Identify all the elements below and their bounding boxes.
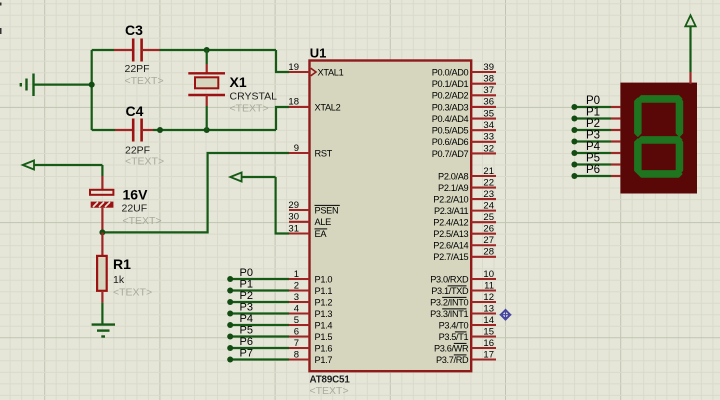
wire [276, 107, 289, 130]
pin 9 (RST) stub [289, 143, 310, 154]
svg-text:P5: P5 [240, 325, 253, 337]
svg-text:P0.1/AD1: P0.1/AD1 [432, 79, 469, 89]
svg-text:X1: X1 [230, 74, 247, 90]
pin name P1.5 [315, 332, 333, 342]
pin name EA [315, 229, 328, 239]
net label P5 [240, 325, 253, 337]
pin name P2.5/A13 [433, 229, 468, 239]
pin 15 (P3.5/T1) stub [471, 326, 496, 337]
pin 38 (P0.1/AD1) stub [471, 73, 496, 84]
ground [92, 325, 115, 337]
wire [230, 312, 289, 314]
svg-text:P2.7/A15: P2.7/A15 [433, 252, 468, 262]
pin name P2.0/A8 [438, 171, 468, 181]
svg-text:18: 18 [288, 97, 299, 108]
svg-text:P7: P7 [240, 348, 253, 360]
pin 6 (P1.5) stub [289, 326, 310, 337]
node [571, 173, 577, 179]
ground [21, 74, 34, 97]
pin 24 (P2.3/A11) stub [471, 200, 496, 211]
power terminal arrow [23, 161, 103, 170]
pin 30 (ALE) stub [288, 212, 309, 223]
svg-text:P3: P3 [586, 130, 600, 142]
svg-text:P2: P2 [586, 118, 600, 130]
svg-text:P1.5: P1.5 [315, 332, 333, 342]
node [571, 139, 577, 145]
svg-text:ALE: ALE [315, 217, 332, 227]
property text [125, 156, 164, 168]
pin 27 (P2.6/A14) stub [471, 235, 496, 246]
svg-text:6: 6 [294, 326, 299, 337]
value AT89C51 [310, 374, 351, 385]
svg-text:7: 7 [294, 338, 299, 349]
wire [574, 175, 620, 177]
svg-text:P0: P0 [240, 267, 253, 279]
value 22UF [122, 203, 148, 215]
svg-text:P0.3/AD3: P0.3/AD3 [432, 102, 469, 112]
pin 10 (P3.0/RXD) stub [471, 269, 496, 280]
svg-text:38: 38 [483, 73, 494, 84]
node [571, 104, 577, 110]
svg-text:<TEXT>: <TEXT> [125, 156, 164, 168]
pin 36 (P0.3/AD3) stub [471, 97, 496, 108]
svg-text:CRYSTAL: CRYSTAL [230, 91, 278, 103]
wire [101, 165, 103, 176]
pin name XTAL2 [315, 102, 341, 112]
pin 37 (P0.2/AD2) stub [471, 85, 496, 96]
crystal X1 [188, 64, 225, 106]
svg-text:P0: P0 [586, 95, 600, 107]
svg-text:24: 24 [483, 200, 494, 211]
svg-text:P1.3: P1.3 [315, 309, 333, 319]
net label P3 [240, 302, 253, 314]
pin name P3.7/RD [436, 355, 469, 365]
net label P1 [240, 279, 253, 291]
svg-text:33: 33 [483, 132, 494, 143]
pin name XTAL1 [311, 67, 344, 77]
svg-text:P5: P5 [586, 153, 600, 165]
wire [230, 289, 289, 291]
svg-text:R1: R1 [113, 256, 131, 272]
pin 17 (P3.7/RD) stub [471, 349, 496, 360]
pin 11 (P3.1/TXD) stub [471, 280, 496, 291]
wire [101, 303, 103, 325]
svg-text:P6: P6 [586, 164, 600, 176]
pin name P3.2/INT0 [430, 297, 468, 307]
net label P7 [240, 348, 253, 360]
node [157, 127, 163, 133]
net label P1 [586, 107, 600, 119]
wire [92, 129, 115, 131]
svg-text:8: 8 [294, 349, 299, 360]
power terminal arrow [230, 173, 275, 182]
svg-text:PSEN: PSEN [315, 205, 339, 215]
svg-text:17: 17 [483, 349, 494, 360]
pin name P0.0/AD0 [432, 67, 469, 77]
svg-text:P0.5/AD5: P0.5/AD5 [432, 126, 469, 136]
property text [113, 287, 152, 299]
wire [102, 153, 289, 232]
edge mark [0, 3, 2, 35]
node [227, 311, 233, 317]
svg-text:34: 34 [483, 120, 494, 131]
node [204, 47, 210, 53]
svg-text:XTAL2: XTAL2 [315, 102, 341, 112]
net label P0 [240, 267, 253, 279]
IC U1 AT89C51 body [310, 61, 472, 372]
pin 13 (P3.3/INT1) stub [471, 303, 496, 314]
pin 28 (P2.7/A15) stub [471, 247, 496, 258]
svg-text:P3.7/RD: P3.7/RD [436, 355, 469, 365]
svg-text:12: 12 [483, 292, 494, 303]
svg-text:27: 27 [483, 235, 494, 246]
svg-text:P1.7: P1.7 [315, 355, 333, 365]
svg-text:EA: EA [315, 229, 328, 239]
pin 12 (P3.2/INT0) stub [471, 292, 496, 303]
pin 3 (P1.2) stub [289, 292, 310, 303]
svg-text:<TEXT>: <TEXT> [123, 215, 162, 227]
svg-text:26: 26 [483, 224, 494, 235]
wire [689, 72, 691, 84]
svg-text:19: 19 [288, 62, 299, 73]
node [227, 345, 233, 351]
pin 16 (P3.6/WR) stub [471, 338, 496, 349]
svg-text:<TEXT>: <TEXT> [125, 75, 164, 87]
wire [230, 324, 289, 326]
svg-text:P1.2: P1.2 [315, 297, 333, 307]
wire [574, 129, 620, 131]
pin name P2.3/A11 [434, 206, 469, 216]
svg-text:P2.6/A14: P2.6/A14 [433, 241, 468, 251]
svg-text:5: 5 [294, 315, 299, 326]
svg-text:P3.0/RXD: P3.0/RXD [430, 274, 469, 284]
label C3 [125, 22, 143, 38]
svg-text:39: 39 [483, 62, 494, 73]
svg-text:22: 22 [483, 177, 494, 188]
wire [206, 50, 208, 64]
7-segment display [620, 83, 697, 194]
net label P2 [586, 118, 600, 130]
svg-text:P3.2/INT0: P3.2/INT0 [430, 297, 468, 307]
pin name P2.6/A14 [433, 241, 468, 251]
resistor R1 [97, 232, 107, 302]
pin name P1.1 [315, 286, 333, 296]
label U1 [310, 45, 327, 60]
svg-text:10: 10 [483, 269, 494, 280]
svg-text:P0.0/AD0: P0.0/AD0 [432, 67, 469, 77]
wire [230, 358, 289, 360]
pin 33 (P0.6/AD6) stub [471, 132, 496, 143]
svg-text:13: 13 [483, 303, 494, 314]
svg-text:P2: P2 [240, 290, 253, 302]
node [571, 127, 577, 133]
label C4 [126, 103, 144, 119]
pin name P0.6/AD6 [432, 137, 469, 147]
svg-text:P2.2/A10: P2.2/A10 [433, 194, 468, 204]
svg-text:P4: P4 [586, 141, 601, 153]
pin 14 (P3.4/T0) stub [471, 315, 496, 326]
pin name P2.4/A12 [433, 218, 468, 228]
pin 35 (P0.4/AD4) stub [471, 108, 496, 119]
label X1 [230, 74, 247, 90]
pin 31 (EA) stub [288, 223, 309, 234]
pin name P3.5/T1 [439, 332, 469, 342]
svg-text:RST: RST [315, 148, 333, 158]
svg-text:1: 1 [294, 269, 299, 280]
svg-text:P1.6: P1.6 [315, 343, 333, 353]
property text [230, 103, 269, 115]
wire [574, 117, 620, 119]
pin 4 (P1.3) stub [289, 303, 310, 314]
capacitor C5 (electrolytic) [90, 176, 113, 232]
pin 5 (P1.4) stub [289, 315, 310, 326]
value 22PF [125, 145, 150, 157]
pin 22 (P2.1/A9) stub [471, 177, 496, 188]
wire [230, 278, 289, 280]
pin name P0.3/AD3 [432, 102, 469, 112]
net label P6 [240, 336, 253, 348]
wire [230, 335, 289, 337]
origin marker [500, 309, 512, 321]
wire [91, 50, 93, 130]
value 22PF [125, 63, 150, 75]
svg-text:36: 36 [483, 97, 494, 108]
svg-text:16V: 16V [123, 187, 149, 203]
pin name P1.4 [315, 320, 333, 330]
wire [276, 177, 289, 234]
pin 18 (XTAL2) stub [288, 97, 309, 108]
svg-text:U1: U1 [310, 45, 327, 60]
svg-text:35: 35 [483, 108, 494, 119]
svg-text:21: 21 [483, 166, 494, 177]
svg-text:C3: C3 [125, 22, 143, 38]
wire [574, 163, 620, 165]
pin name P0.1/AD1 [432, 79, 469, 89]
net label P2 [240, 290, 253, 302]
pin 26 (P2.5/A13) stub [471, 224, 496, 235]
wire [230, 301, 289, 303]
net label P3 [586, 130, 600, 142]
svg-text:15: 15 [483, 326, 494, 337]
svg-text:P1.1: P1.1 [315, 286, 333, 296]
pin name P2.2/A10 [433, 194, 468, 204]
pin name P3.1/TXD [431, 286, 469, 296]
net label P0 [586, 95, 600, 107]
pin name P1.0 [315, 274, 333, 284]
svg-text:P4: P4 [240, 313, 253, 325]
pin name ALE [315, 217, 332, 227]
svg-text:P1.0: P1.0 [315, 274, 333, 284]
svg-text:C4: C4 [126, 103, 144, 119]
pin 23 (P2.2/A10) stub [471, 189, 496, 200]
pin name P3.4/T0 [439, 320, 469, 330]
wire [153, 129, 276, 131]
property text [125, 75, 164, 87]
pin 8 (P1.7) stub [289, 349, 310, 360]
svg-text:P2.5/A13: P2.5/A13 [433, 229, 468, 239]
pin name P1.6 [315, 343, 333, 353]
capacitor C3 [114, 39, 160, 62]
svg-text:<TEXT>: <TEXT> [113, 287, 152, 299]
node [571, 150, 577, 156]
capacitor C4 [115, 119, 153, 142]
node [227, 299, 233, 305]
svg-text:29: 29 [288, 200, 299, 211]
wire [230, 347, 289, 349]
wire [574, 140, 620, 142]
pin name P2.1/A9 [438, 183, 468, 193]
svg-text:2: 2 [294, 280, 299, 291]
node [227, 334, 233, 340]
svg-text:P3.3/INT1: P3.3/INT1 [430, 309, 468, 319]
pin 1 (P1.0) stub [289, 269, 310, 280]
pin 34 (P0.5/AD5) stub [471, 120, 496, 131]
value 16V [123, 187, 149, 203]
svg-text:22UF: 22UF [122, 203, 148, 215]
svg-text:37: 37 [483, 85, 494, 96]
node [227, 357, 233, 363]
wire [574, 106, 620, 108]
svg-text:P2.3/A11: P2.3/A11 [434, 206, 469, 216]
net label P4 [586, 141, 601, 153]
svg-text:P3.6/WR: P3.6/WR [434, 343, 469, 353]
svg-text:P2.4/A12: P2.4/A12 [433, 218, 468, 228]
svg-text:P6: P6 [240, 336, 253, 348]
svg-text:16: 16 [483, 338, 494, 349]
node [227, 276, 233, 282]
pin name P0.7/AD7 [432, 149, 469, 159]
wire [92, 49, 114, 51]
svg-text:P1.4: P1.4 [315, 320, 333, 330]
svg-text:P3: P3 [240, 302, 253, 314]
node [204, 127, 210, 133]
svg-text:22PF: 22PF [125, 63, 150, 75]
pin 19 (XTAL1) stub [288, 62, 309, 73]
pin 29 (PSEN) stub [288, 200, 309, 211]
net label P5 [586, 153, 600, 165]
pin 39 (P0.0/AD0) stub [471, 62, 496, 73]
pin name P1.3 [315, 309, 333, 319]
svg-text:32: 32 [483, 143, 494, 154]
pin name P3.3/INT1 [430, 309, 468, 319]
svg-text:23: 23 [483, 189, 494, 200]
svg-text:1k: 1k [113, 274, 125, 286]
svg-text:<TEXT>: <TEXT> [230, 103, 269, 115]
value 1k [113, 274, 125, 286]
node [571, 116, 577, 122]
pin name P0.2/AD2 [432, 91, 469, 101]
svg-text:P3.5/T1: P3.5/T1 [439, 332, 469, 342]
pin 7 (P1.6) stub [289, 338, 310, 349]
svg-text:11: 11 [484, 280, 494, 291]
svg-text:P1: P1 [586, 107, 600, 119]
svg-text:<TEXT>: <TEXT> [310, 385, 349, 397]
pin name RST [315, 148, 333, 158]
wire [206, 106, 208, 130]
pin 21 (P2.0/A8) stub [471, 166, 496, 177]
pin name P0.4/AD4 [432, 114, 469, 124]
svg-text:9: 9 [294, 143, 299, 154]
svg-text:P0.2/AD2: P0.2/AD2 [432, 91, 469, 101]
wire [574, 152, 620, 154]
wire [276, 50, 289, 72]
node [571, 162, 577, 168]
svg-text:25: 25 [483, 212, 494, 223]
property text [310, 385, 349, 397]
pin name P1.2 [315, 297, 333, 307]
wire [34, 83, 92, 85]
svg-text:AT89C51: AT89C51 [310, 374, 351, 385]
pin 32 (P0.7/AD7) stub [471, 143, 496, 154]
pin 25 (P2.4/A12) stub [471, 212, 496, 223]
pin name P1.7 [315, 355, 333, 365]
node [227, 288, 233, 294]
svg-text:3: 3 [294, 292, 299, 303]
svg-text:P0.7/AD7: P0.7/AD7 [432, 149, 469, 159]
svg-text:14: 14 [483, 315, 494, 326]
svg-text:P2.0/A8: P2.0/A8 [438, 171, 468, 181]
svg-text:P1: P1 [240, 279, 253, 291]
value CRYSTAL [230, 91, 278, 103]
svg-text:P2.1/A9: P2.1/A9 [438, 183, 468, 193]
node [89, 82, 95, 88]
node [99, 229, 105, 235]
svg-text:P3.1/TXD: P3.1/TXD [431, 286, 469, 296]
pin 2 (P1.1) stub [289, 280, 310, 291]
pin name P3.6/WR [434, 343, 469, 353]
node [227, 322, 233, 328]
svg-text:28: 28 [483, 247, 494, 258]
pin name P3.0/RXD [430, 274, 469, 284]
net label P6 [586, 164, 600, 176]
net label P4 [240, 313, 253, 325]
wire [160, 49, 277, 51]
pin name P2.7/A15 [433, 252, 468, 262]
svg-text:XTAL1: XTAL1 [318, 67, 344, 77]
label R1 [113, 256, 131, 272]
svg-text:P0.6/AD6: P0.6/AD6 [432, 137, 469, 147]
power terminal arrow [685, 15, 695, 72]
pin name P0.5/AD5 [432, 126, 469, 136]
svg-text:31: 31 [288, 223, 299, 234]
property text [123, 215, 162, 227]
svg-text:P0.4/AD4: P0.4/AD4 [432, 114, 469, 124]
svg-text:4: 4 [294, 303, 299, 314]
svg-text:30: 30 [288, 212, 299, 223]
pin name PSEN [315, 205, 340, 215]
svg-text:P3.4/T0: P3.4/T0 [439, 320, 469, 330]
